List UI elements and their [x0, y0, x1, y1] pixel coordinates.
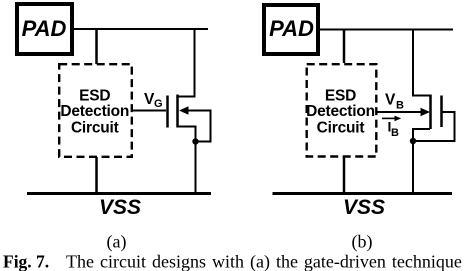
svg-text:VSS: VSS	[99, 196, 141, 219]
current arrow IB (b)	[382, 116, 401, 122]
svg-text:VSS: VSS	[343, 196, 385, 219]
node label VG (a)	[144, 91, 163, 110]
node label VB (b)	[385, 92, 404, 112]
wire: PAD to top rail (b)	[320, 29, 453, 31]
transistor M1 channel bar (a)	[176, 95, 179, 128]
svg-text:Detection: Detection	[60, 103, 129, 120]
wire: drain of M1 up to rail (a)	[178, 29, 195, 97]
net label VSS (a)	[99, 196, 141, 219]
transistor M1 gate bar (a)	[166, 96, 169, 128]
svg-text:Fig. 7.: Fig. 7.	[3, 252, 49, 271]
svg-text:ESD: ESD	[325, 88, 356, 105]
wire: VB substrate drive from ESD circuit with arrow into bulk (b)	[377, 108, 430, 116]
svg-text:Detection: Detection	[306, 103, 375, 120]
svg-text:V: V	[385, 92, 396, 109]
svg-text:Circuit: Circuit	[317, 120, 365, 137]
svg-text:ESD: ESD	[79, 88, 110, 105]
ground rail VSS (b)	[273, 192, 453, 195]
svg-text:(a): (a)	[107, 232, 127, 253]
svg-text:The circuit designs with (a) t: The circuit designs with (a) the gate-dr…	[66, 252, 462, 271]
wire: gate of M2 tied to source (b)	[414, 112, 455, 141]
wire: ESD circuit to VSS rail (a)	[95, 157, 98, 193]
transistor M2 channel bar (b)	[429, 95, 432, 130]
svg-text:(b): (b)	[352, 232, 373, 253]
figure caption	[3, 252, 462, 271]
junction: bulk tied to source (a)	[192, 138, 198, 144]
wire: source of M1 down to VSS (a)	[178, 127, 196, 193]
svg-text:B: B	[391, 127, 399, 139]
pad box PAD (a)	[17, 4, 72, 54]
current label IB (b)	[388, 119, 400, 140]
wire: source of M2 down to VSS (b)	[413, 129, 430, 192]
svg-text:PAD: PAD	[269, 16, 314, 41]
ESD detection circuit block U1 (a)	[59, 64, 132, 157]
transistor M2 gate bar (b)	[440, 96, 443, 128]
ESD detection circuit block U2 (b)	[306, 64, 376, 156]
wire: PAD to top rail (a)	[72, 28, 208, 30]
wire: top rail to ESD detection circuit (b)	[343, 29, 346, 64]
transistor M1 bulk wire with arrow into channel (a)	[179, 106, 211, 141]
net label VSS (b)	[343, 196, 385, 219]
wire: top rail to ESD detection circuit (a)	[95, 28, 98, 64]
svg-text:B: B	[396, 100, 404, 112]
subfigure label (a)	[107, 232, 127, 253]
svg-text:Circuit: Circuit	[71, 120, 119, 137]
pad box PAD (b)	[264, 5, 318, 54]
junction: gate tied to source node (b)	[410, 138, 416, 144]
wire: VG gate drive from ESD circuit to gate (a)	[132, 110, 166, 112]
wire: drain of M2 from rail (b)	[413, 30, 430, 96]
svg-text:G: G	[154, 98, 163, 110]
svg-text:PAD: PAD	[22, 16, 67, 41]
wire: ESD circuit to VSS rail (b)	[343, 157, 346, 194]
subfigure label (b)	[352, 232, 373, 253]
ground rail VSS (a)	[27, 192, 211, 195]
